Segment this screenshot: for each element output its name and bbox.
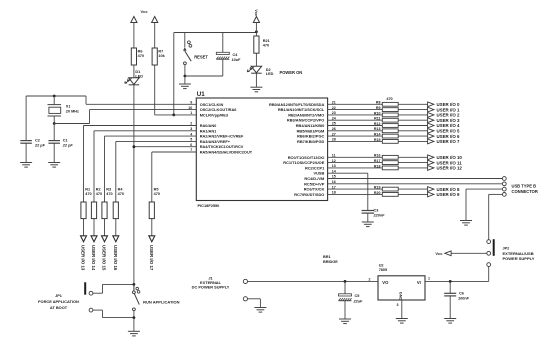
svg-text:USER I/O 7: USER I/O 7 (437, 139, 460, 144)
pin 12 RC1/T1OSI/CCP2/UOE (283, 159, 336, 165)
pin 23 RB2/AN8/INT2/VMO (288, 111, 336, 117)
pin 10 OSC2/CLKOUT/RA6 (188, 106, 237, 112)
svg-text:POWER SUPPLY: POWER SUPPLY (503, 256, 535, 261)
power flag Vcc (above R21, rotated label) (253, 9, 259, 36)
pin 22 RB1/AN10/INT1/SCK/SCL (278, 106, 336, 112)
resistor R8 (376, 101, 398, 107)
svg-text:AT BOOT: AT BOOT (50, 305, 68, 310)
crystal X1 20 MHz (48, 96, 79, 124)
svg-text:RB1/AN10/INT1/SCK/SCL: RB1/AN10/INT1/SCK/SCL (278, 107, 325, 112)
switch S1 RESET (183, 33, 208, 77)
svg-text:RB0/AN12/INT0/FLT0/SDI/SDA: RB0/AN12/INT0/FLT0/SDI/SDA (269, 102, 324, 107)
capacitor C2 22pF (20, 96, 45, 163)
capacitor C6 100nF (444, 281, 469, 318)
svg-text:USER I/O 5: USER I/O 5 (437, 129, 460, 134)
svg-text:R7: R7 (158, 49, 163, 53)
svg-text:470: 470 (138, 54, 144, 58)
svg-text:RB7/KBI3/PGD: RB7/KBI3/PGD (297, 139, 324, 144)
wire MCLR to U1 pin 1 (174, 114, 197, 116)
pin 28 RB7/KBI3/PGD (297, 138, 336, 144)
pin 1 MCLR/Vpp/RE3 (190, 111, 229, 117)
node Vcc/R21 junction (255, 30, 258, 33)
pin 9 OSC1/CLKIN (190, 101, 223, 107)
wire pin 18 to R20 (328, 193, 383, 195)
svg-text:VUSB: VUSB (313, 171, 324, 176)
jumper JP2 EXTERNAL/USB POWER SUPPLY (487, 239, 535, 266)
wire J1 minus to ground (248, 299, 261, 308)
svg-text:1: 1 (428, 277, 430, 281)
capacitor C4 (216, 33, 241, 77)
wire RA net pin 3 (94, 131, 196, 202)
svg-text:USER I/O 0: USER I/O 0 (437, 102, 460, 107)
svg-text:USER I/O 1: USER I/O 1 (437, 107, 460, 112)
svg-text:470: 470 (386, 97, 392, 101)
LED D1 (125, 65, 144, 85)
svg-text:C2: C2 (35, 139, 40, 143)
node USER I/O 12 arrow (428, 166, 463, 171)
svg-text:R18: R18 (374, 164, 381, 168)
pin 25 RB4/AN11/KBI0 (296, 122, 336, 128)
resistor R13 (374, 127, 398, 133)
svg-text:BRIDGE: BRIDGE (323, 260, 338, 264)
wire RA net pin 7 (152, 152, 197, 202)
wire JP2 bottom to rail (450, 267, 489, 282)
node USER I/O 9 arrow (428, 192, 460, 197)
wire pin 11 to R16 (328, 156, 383, 158)
svg-text:R1: R1 (85, 188, 90, 192)
svg-text:R8: R8 (376, 101, 381, 105)
power flag Vcc (top left) (131, 9, 158, 48)
svg-text:7805: 7805 (379, 268, 387, 272)
svg-text:RB5/KBI1/PGM: RB5/KBI1/PGM (297, 128, 325, 133)
node C6 junction (449, 280, 452, 283)
resistor R7 (152, 48, 166, 65)
svg-text:10: 10 (188, 106, 192, 110)
svg-text:R3: R3 (106, 188, 111, 192)
node USER I/O 6 arrow (428, 134, 460, 139)
node USER I/O 5 arrow (428, 128, 460, 133)
pin 11 RC0/T1OSO/T13CKI (288, 154, 336, 160)
svg-text:20 MHz: 20 MHz (66, 109, 79, 113)
svg-text:USER I/O 6: USER I/O 6 (437, 134, 460, 139)
wire R13 to arrow (398, 130, 427, 132)
svg-text:USER I/O 17: USER I/O 17 (149, 245, 154, 271)
svg-text:VI: VI (417, 280, 421, 285)
svg-text:PIC18F2550: PIC18F2550 (198, 203, 220, 208)
connector J2 USB TYPE B (502, 177, 537, 197)
node USER I/O 16 arrow (113, 236, 119, 271)
svg-text:RC2/CCP1: RC2/CCP1 (305, 165, 325, 170)
resistor R20 (374, 191, 398, 197)
svg-text:R19: R19 (374, 186, 381, 190)
svg-text:RA1/AN1: RA1/AN1 (200, 128, 217, 133)
resistor R15 (374, 138, 398, 144)
wire pin 25 to R12 (328, 125, 383, 127)
svg-text:RA3/AN3/VREF+: RA3/AN3/VREF+ (200, 139, 231, 144)
wire R16 to arrow (398, 156, 427, 158)
resistor R12 (374, 122, 398, 128)
svg-text:R21: R21 (263, 39, 270, 43)
jumper JP1 FORCE APPLICATION AT BOOT (38, 282, 93, 312)
svg-text:RC5/D+/VP: RC5/D+/VP (304, 181, 325, 186)
svg-text:RC6/TX/CK: RC6/TX/CK (304, 187, 325, 192)
svg-text:R14: R14 (374, 133, 381, 137)
svg-text:OSC1/CLKIN: OSC1/CLKIN (200, 102, 224, 107)
pin 14 VUSB (313, 169, 335, 175)
node USER I/O 4 arrow (428, 123, 460, 128)
node MCLR junction (172, 114, 175, 117)
svg-text:X1: X1 (66, 105, 71, 109)
svg-text:C3: C3 (374, 209, 379, 213)
op-amp U1 PIC18F2550 body (196, 91, 327, 208)
pin 7 RA5/AN4/SS/HLVDIN/C2OUT (190, 148, 252, 154)
pin 21 RB0/AN12/INT0/FLT0/SDI/SDA (269, 101, 336, 107)
svg-text:RC1/T1OSI/CCP2/UOE: RC1/T1OSI/CCP2/UOE (283, 160, 324, 165)
svg-text:470: 470 (263, 44, 269, 48)
ground (under reset switch) (179, 76, 191, 89)
svg-text:3: 3 (397, 303, 399, 307)
wire R2 to arrow (93, 219, 95, 236)
resistor R6 (131, 48, 144, 65)
node USER I/O 15 arrow (102, 236, 108, 271)
svg-text:R2: R2 (96, 188, 101, 192)
svg-text:220nF: 220nF (373, 213, 386, 217)
wire R4 to arrow (115, 219, 117, 236)
svg-text:LED: LED (266, 72, 274, 76)
svg-text:RB4/AN11/KBI0: RB4/AN11/KBI0 (296, 123, 325, 128)
ground (under C5) (339, 318, 351, 320)
svg-text:100nF: 100nF (458, 296, 470, 300)
svg-text:C6: C6 (459, 291, 464, 295)
node RA4 junction (133, 145, 136, 148)
svg-text:RB2/AN8/INT2/VMO: RB2/AN8/INT2/VMO (288, 112, 324, 117)
svg-text:RA4/T0CKI/C1OUT/RCV: RA4/T0CKI/C1OUT/RCV (200, 144, 244, 149)
svg-text:RC7/RX/DT/SDO: RC7/RX/DT/SDO (294, 192, 324, 197)
wire R11 to arrow (398, 119, 427, 121)
wire reset bottom to C4 (185, 75, 223, 77)
power flag Vcc (JP2) (435, 251, 486, 256)
resistor R3 470 (102, 188, 113, 219)
svg-text:R17: R17 (374, 159, 381, 163)
svg-text:470: 470 (106, 192, 112, 196)
resistor R18 (374, 164, 398, 170)
svg-text:U2: U2 (379, 263, 384, 267)
ground (under C1) (48, 162, 60, 164)
wire D1 cathode column down to run switch (133, 85, 135, 291)
ground (under C3) (362, 221, 374, 223)
wire pin 12 to R17 (328, 162, 383, 164)
node crystal bottom (53, 122, 56, 125)
wire U2 VI rail (425, 280, 450, 282)
pin 24 RB3/AN9/CCP2/VPO (287, 116, 336, 122)
pin 17 RC6/TX/CK (304, 185, 336, 191)
svg-text:MCLR/Vpp/RE3: MCLR/Vpp/RE3 (200, 112, 229, 117)
svg-text:10uF: 10uF (232, 58, 242, 62)
svg-text:USER I/O 14: USER I/O 14 (91, 245, 96, 271)
resistor R11 (374, 117, 398, 123)
pin 5 RA3/AN3/VREF+ (190, 138, 231, 144)
wire R14 to arrow (398, 135, 427, 137)
svg-text:470: 470 (85, 192, 91, 196)
svg-text:R16: R16 (374, 154, 381, 158)
svg-text:POWER ON: POWER ON (280, 70, 303, 75)
node USER I/O 0 arrow (428, 102, 460, 107)
svg-text:R10: R10 (374, 111, 381, 115)
capacitor C5 22uF (339, 281, 364, 319)
wire pin 17 to R19 (328, 188, 383, 190)
wire R8 to arrow (398, 103, 427, 105)
wire JP1 top to run column (93, 284, 134, 293)
node USER I/O 2 arrow (428, 113, 460, 118)
ground (under C6) (444, 318, 456, 320)
resistor R5 470 (149, 188, 160, 219)
svg-text:DC POWER SUPPLY: DC POWER SUPPLY (192, 285, 230, 290)
wire pin 23 to R10 (328, 114, 383, 116)
svg-text:USER I/O 13: USER I/O 13 (81, 245, 86, 271)
wire R15 to arrow (398, 140, 427, 142)
svg-text:USER I/O 8: USER I/O 8 (437, 187, 460, 192)
svg-text:C1: C1 (63, 139, 68, 143)
wire JP1 bottom to gnd node (93, 310, 134, 318)
svg-text:CONNECTOR: CONNECTOR (512, 189, 538, 194)
svg-text:RA2/AN2/VREF-/CVREF: RA2/AN2/VREF-/CVREF (200, 134, 244, 139)
svg-text:R20: R20 (374, 191, 381, 195)
resistor R1 470 (81, 188, 92, 219)
wire pin 27 to R14 (328, 135, 383, 137)
wire R7 to MCLR (155, 65, 174, 115)
node crystal top (53, 95, 56, 98)
wire R18 to arrow (398, 167, 427, 169)
ground (USB) (460, 220, 472, 222)
svg-text:22 pF: 22 pF (34, 143, 46, 147)
resistor R19 (374, 186, 398, 192)
wire OSC2 net (90, 110, 197, 124)
pin 15 RC4/D-/VM (304, 175, 335, 181)
svg-text:USB TYPE B: USB TYPE B (512, 184, 537, 189)
svg-text:RB6/KBI2/PGC: RB6/KBI2/PGC (297, 134, 324, 139)
svg-text:BR1: BR1 (323, 255, 331, 259)
svg-text:GND: GND (398, 292, 402, 301)
wire RA net pin 4 (105, 136, 197, 202)
svg-text:USER I/O 2: USER I/O 2 (437, 113, 460, 118)
label BR1 BRIDGE (323, 255, 338, 264)
ground (under C2) (20, 162, 32, 164)
resistor R17 (374, 159, 398, 165)
ground (J1) (254, 307, 266, 309)
svg-text:USER I/O 16: USER I/O 16 (113, 245, 118, 271)
resistor R4 470 (113, 188, 124, 219)
wire pin 28 to R15 (328, 140, 383, 142)
pin 4 RA2/AN2/VREF-/CVREF (190, 132, 244, 138)
pin 26 RB5/KBI1/PGM (297, 127, 336, 133)
wire R20 to arrow (398, 193, 427, 195)
wire R3 to arrow (104, 219, 106, 236)
svg-text:Vcc: Vcc (435, 251, 443, 256)
svg-text:OSC2/CLKOUT/RA6: OSC2/CLKOUT/RA6 (200, 107, 238, 112)
node run switch bottom junction (133, 316, 136, 319)
svg-text:RA0/AN0: RA0/AN0 (200, 123, 217, 128)
wire crystal bottom rail (54, 123, 89, 125)
svg-text:9: 9 (190, 101, 192, 105)
svg-text:R15: R15 (374, 138, 381, 142)
node USER I/O 3 arrow (428, 118, 460, 123)
wire RC4 D- to USB (328, 178, 503, 180)
resistor R21 (254, 36, 270, 53)
svg-text:RA5/AN4/SS/HLVDIN/C2OUT: RA5/AN4/SS/HLVDIN/C2OUT (200, 150, 253, 155)
node USER I/O 1 arrow (428, 107, 460, 112)
wire main rail J1 to U2 (248, 280, 378, 282)
wire R17 to arrow (398, 162, 427, 164)
wire USB shield to ground (466, 189, 502, 220)
capacitor C3 220nF (362, 209, 386, 223)
resistor R10 (374, 111, 398, 117)
svg-text:1: 1 (190, 111, 192, 115)
wire pin 13 to R18 (328, 167, 383, 169)
node run column top junction (133, 283, 136, 286)
svg-text:Vcc: Vcc (140, 9, 148, 14)
pin 3 RA1/AN1 (190, 127, 217, 133)
pin 13 RC2/CCP1 (305, 164, 336, 170)
svg-text:USER I/O 3: USER I/O 3 (437, 118, 460, 123)
svg-text:R11: R11 (374, 117, 380, 121)
svg-text:2: 2 (369, 277, 371, 281)
svg-text:Vcc: Vcc (254, 9, 258, 16)
resistor R16 (374, 154, 398, 160)
svg-text:10k: 10k (158, 54, 165, 58)
node USER I/O 13 arrow (81, 236, 87, 271)
svg-text:RC4/D-/VM: RC4/D-/VM (304, 176, 324, 181)
node USER I/O 11 arrow (428, 160, 463, 165)
switch S2 RUN APPLICATION (133, 284, 180, 317)
node USER I/O 17 arrow (149, 236, 155, 271)
wire R19 to arrow (398, 188, 427, 190)
svg-text:22 pF: 22 pF (62, 143, 74, 147)
pin 2 RA0/AN0 (190, 122, 216, 128)
wire R10 to arrow (398, 114, 427, 116)
svg-text:JP1: JP1 (55, 294, 62, 298)
svg-text:22uF: 22uF (353, 299, 364, 303)
svg-text:R5: R5 (154, 188, 159, 192)
svg-text:470: 470 (154, 192, 160, 196)
svg-text:USER I/O 9: USER I/O 9 (437, 192, 460, 197)
svg-text:USER I/O 10: USER I/O 10 (437, 155, 463, 160)
wire R12 to arrow (398, 125, 427, 127)
wire R9 to arrow (398, 109, 427, 111)
wire reset rail (174, 33, 257, 115)
svg-text:USER I/O 4: USER I/O 4 (437, 123, 460, 128)
svg-text:R6: R6 (138, 49, 143, 53)
svg-text:R12: R12 (374, 122, 381, 126)
wire R5 to arrow (151, 219, 153, 236)
svg-text:VO: VO (382, 280, 389, 285)
node USER I/O 8 arrow (428, 187, 460, 192)
connector J1 EXTERNAL DC POWER SUPPLY (192, 275, 248, 301)
ground (under U2) (396, 318, 408, 320)
wire pin 22 to R9 (328, 109, 383, 111)
svg-text:USER I/O 12: USER I/O 12 (437, 166, 463, 171)
wire USB VBUS to JP2 (489, 194, 503, 239)
regulator U2 7805 (369, 263, 426, 318)
svg-text:U1: U1 (197, 91, 205, 98)
wire pin 21 to R8 (328, 103, 383, 105)
svg-text:R13: R13 (374, 127, 381, 131)
wire crystal top rail (26, 95, 86, 97)
svg-text:EXTERNAL/USB: EXTERNAL/USB (503, 251, 534, 256)
wire RA4 to run/boot column (134, 146, 196, 148)
resistor R2 470 (91, 188, 102, 219)
pin 18 RC7/RX/DT/SDO (294, 191, 336, 197)
svg-text:C5: C5 (355, 294, 360, 298)
pin 6 RA4/T0CKI/C1OUT/RCV (190, 143, 243, 149)
svg-text:USER I/O 15: USER I/O 15 (102, 245, 107, 271)
pin 27 RB6/KBI2/PGC (297, 132, 336, 138)
svg-text:RUN APPLICATION: RUN APPLICATION (143, 299, 180, 304)
wire OSC1 net (86, 96, 196, 104)
wire RA net pin 5 (116, 141, 197, 202)
wire pin 24 to R11 (328, 119, 383, 121)
wire RA net pin 2 (84, 126, 197, 203)
node USER I/O 10 arrow (428, 155, 463, 160)
svg-text:USER I/O 11: USER I/O 11 (437, 160, 463, 165)
svg-text:RC0/T1OSO/T13CKI: RC0/T1OSO/T13CKI (288, 155, 325, 160)
wire pin 26 to R13 (328, 130, 383, 132)
capacitor C1 22pF (48, 124, 73, 163)
svg-text:RB3/AN9/CCP2/VPO: RB3/AN9/CCP2/VPO (287, 118, 324, 123)
node reset/gnd junction (184, 75, 187, 78)
wire R1 to arrow (83, 219, 85, 236)
node C5 junction (344, 280, 347, 283)
wire RC5 D+ to USB (328, 183, 503, 185)
ground (under D2) (250, 86, 262, 88)
pin 16 RC5/D+/VP (304, 180, 336, 186)
svg-text:R9: R9 (376, 106, 381, 110)
resistor R9 (376, 106, 398, 112)
resistor R14 (374, 133, 398, 139)
wire VUSB to C3 (328, 173, 368, 210)
node USER I/O 14 arrow (91, 236, 97, 271)
LED D2 POWER ON (247, 53, 302, 87)
svg-text:FORCE APPLICATION: FORCE APPLICATION (38, 299, 79, 304)
node USER I/O 7 arrow (428, 139, 460, 144)
svg-text:RESET: RESET (194, 55, 208, 60)
svg-text:470: 470 (118, 192, 124, 196)
ground (under run switch) (128, 318, 140, 336)
svg-text:470: 470 (96, 192, 102, 196)
